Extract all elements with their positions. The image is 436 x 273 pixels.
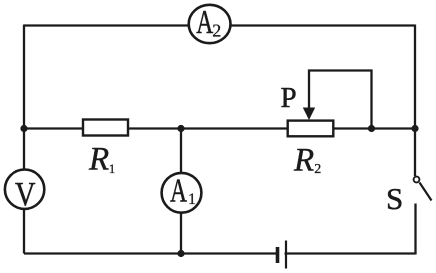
node: A1 bottom junction [177,250,184,257]
switch S blade [420,183,432,201]
wire: left vertical [23,25,25,254]
battery gap eraser [279,248,285,259]
svg-text:A: A [170,173,187,210]
ammeter A2 [189,5,231,43]
svg-text:2: 2 [212,21,221,41]
svg-text:V: V [15,176,36,213]
wire: middle horizontal [24,127,415,129]
node: wiper loop junction [368,125,375,132]
svg-text:P: P [281,82,297,114]
wire: right vertical upper [414,25,416,177]
svg-text:R: R [88,142,109,178]
wire: top horizontal [24,24,415,26]
rheostat R2 box [288,121,334,137]
switch S pivot circle [414,177,420,183]
battery short thick plate (negative) [276,247,280,263]
node: left middle junction [20,125,27,132]
wire: potentiometer wiper loop [309,71,372,129]
svg-text:1: 1 [109,161,116,176]
node: A1 top junction [177,125,184,132]
svg-text:A: A [196,4,213,41]
node: right middle junction [411,125,418,132]
svg-text:1: 1 [188,191,196,208]
ammeter A1 [162,173,202,213]
svg-text:2: 2 [314,162,321,177]
wiper arrowhead of potentiometer [303,108,315,121]
wire: right vertical lower [414,204,416,255]
wire: ammeter A1 branch vertical [180,129,182,254]
resistor R1 box [83,120,128,136]
voltmeter V [5,170,44,209]
svg-text:S: S [386,181,403,216]
wire: bottom horizontal [24,252,416,254]
svg-text:R: R [293,143,314,179]
battery long thin plate (positive) [285,241,287,269]
